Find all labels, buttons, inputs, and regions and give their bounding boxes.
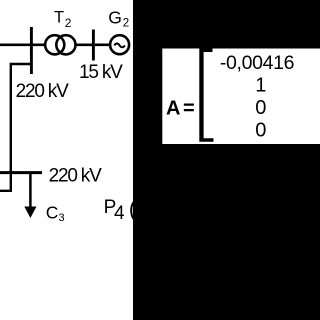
transformer T2	[45, 35, 75, 54]
svg-text:220 kV: 220 kV	[49, 165, 102, 186]
svg-text:220 kV: 220 kV	[16, 81, 69, 102]
matrix white panel	[162, 49, 320, 145]
svg-text:A=: A=	[166, 98, 195, 120]
load arrow C3 shaft	[29, 173, 32, 208]
generator tilde symbol	[114, 44, 125, 48]
generator G2	[110, 35, 129, 54]
matrix left bracket	[199, 49, 213, 142]
svg-text:15 kV: 15 kV	[79, 62, 123, 83]
load arrow C3 head	[24, 207, 36, 219]
wire: bus 1 down-line to bus 3	[0, 64, 33, 191]
svg-text:4: 4	[114, 203, 125, 224]
svg-text:0: 0	[255, 97, 266, 119]
wire: transformer to bus 2	[76, 43, 93, 46]
svg-text:1: 1	[255, 75, 266, 97]
svg-text:-0,00416: -0,00416	[220, 52, 294, 74]
wire: left feeder to bus 1	[0, 43, 45, 46]
black right region	[133, 0, 320, 320]
wire: bus 2 to generator	[95, 43, 110, 46]
node bus 1 (220 kV busbar)	[30, 27, 33, 74]
node bus 3 (220 kV busbar)	[0, 171, 42, 174]
node bus 2 (15 kV busbar)	[92, 30, 95, 61]
svg-text:0: 0	[255, 119, 266, 141]
